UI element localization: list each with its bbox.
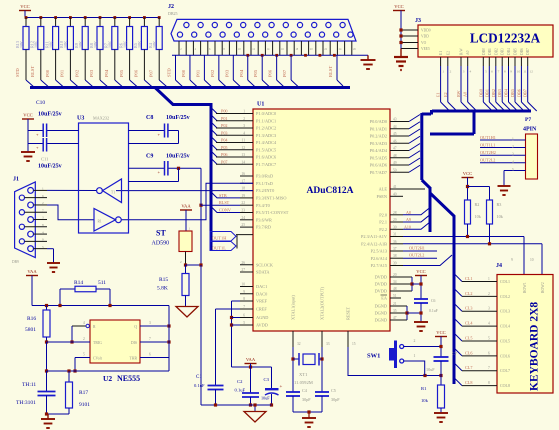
wire keyboard column COL7 (454, 363, 462, 371)
wire bus to U1 pin P1.3/ADC3 (211, 129, 217, 135)
svg-text:U3: U3 (77, 116, 84, 122)
ground triangle (R15) (176, 307, 198, 318)
svg-text:6: 6 (42, 194, 44, 198)
svg-text:VCC: VCC (436, 330, 445, 335)
svg-text:P3.1/TxD: P3.1/TxD (256, 181, 273, 186)
svg-text:36: 36 (393, 240, 397, 244)
svg-text:8: 8 (488, 381, 490, 385)
svg-text:DB5: DB5 (514, 48, 518, 55)
svg-text:CL2: CL2 (465, 291, 472, 296)
svg-text:15: 15 (352, 342, 356, 346)
wire U2 dis pin (140, 341, 169, 343)
svg-text:DVDD: DVDD (375, 282, 387, 287)
wire U2 trig pin (47, 341, 91, 343)
wire sensor line down (200, 265, 202, 405)
resistor R9 10K with net P02 (84, 16, 87, 19)
svg-text:41: 41 (393, 185, 397, 189)
svg-text:P1.4/ADC4: P1.4/ADC4 (256, 140, 277, 145)
wire bus to U1 pin P1.7/ADC7 (211, 158, 217, 164)
wire VREF (232, 300, 241, 302)
svg-text:AVDD: AVDD (256, 323, 268, 328)
svg-text:10: 10 (517, 70, 521, 74)
svg-text:10K: 10K (19, 41, 24, 48)
wire U2 thr pin (140, 357, 169, 359)
svg-text:1: 1 (442, 70, 444, 74)
svg-text:OUT1L1: OUT1L1 (480, 142, 495, 147)
svg-text:P2.5/A13: P2.5/A13 (371, 249, 387, 254)
svg-text:RW: RW (456, 90, 461, 97)
svg-text:6: 6 (149, 353, 151, 357)
svg-text:11: 11 (242, 139, 246, 143)
ground (J1) (47, 262, 60, 264)
wire SW1 pin2 to VCC (404, 346, 441, 348)
svg-text:C10: C10 (36, 100, 45, 106)
svg-text:1: 1 (512, 138, 514, 142)
ic U1 DVDD pins (390, 276, 412, 278)
svg-text:VEE5: VEE5 (421, 47, 430, 51)
svg-text:E1: E1 (436, 92, 441, 97)
svg-text:10k: 10k (475, 214, 482, 219)
svg-text:5: 5 (83, 353, 85, 357)
svg-text:CL3: CL3 (465, 306, 472, 311)
svg-text:A10: A10 (404, 224, 411, 229)
crystal XT1 11.0592M (293, 358, 299, 360)
svg-text:3: 3 (42, 216, 44, 220)
wire P2.2 to bus (403, 222, 430, 229)
svg-text:THR: THR (129, 357, 137, 361)
svg-text:DAC0: DAC0 (256, 291, 267, 296)
net label STB (211, 192, 240, 198)
svg-text:A0: A0 (466, 50, 470, 55)
svg-text:P05: P05 (119, 69, 124, 77)
svg-text:17: 17 (241, 179, 245, 183)
svg-text:28: 28 (393, 211, 397, 215)
wire XTAL2 (321, 347, 323, 392)
gate U3A inverter (103, 179, 122, 203)
svg-text:P04: P04 (239, 69, 244, 77)
svg-text:4PIN: 4PIN (523, 127, 537, 133)
wire bus to U1 pin P1.0/ADC0 (211, 108, 217, 114)
svg-text:CREF: CREF (256, 307, 267, 312)
ic U1 bottom pins XTAL1 XTAL2 RESET (292, 331, 294, 347)
svg-text:4: 4 (488, 322, 490, 326)
svg-text:J4: J4 (496, 263, 502, 269)
svg-text:P01: P01 (221, 116, 228, 121)
ground (SW1) (434, 412, 448, 414)
gate U3B inverter (94, 209, 116, 232)
wire LCD supply pins (401, 29, 418, 31)
wire analog VAA node (232, 366, 272, 368)
svg-text:18: 18 (241, 187, 245, 191)
connector J1 DB9 body (15, 182, 36, 258)
svg-text:KEYBOARD 2X8: KEYBOARD 2X8 (529, 302, 541, 391)
svg-text:9: 9 (243, 290, 245, 294)
net label OUT2H (403, 250, 437, 252)
wire J2 pin to bus net P00 (189, 55, 191, 80)
svg-text:DGND: DGND (375, 304, 387, 309)
svg-text:VDD: VDD (421, 35, 429, 39)
wire P5 pin5 to ground (504, 170, 526, 172)
svg-text:DB9: DB9 (12, 260, 19, 264)
wire U1 pin P0.3/AD3 to bus (390, 142, 409, 144)
svg-text:6: 6 (243, 314, 245, 318)
svg-text:39: 39 (393, 262, 397, 266)
svg-text:PSEN: PSEN (376, 194, 387, 199)
svg-text:P1.2/ADC2: P1.2/ADC2 (256, 126, 276, 131)
svg-text:47: 47 (393, 316, 397, 320)
svg-text:P1.6/ADC6: P1.6/ADC6 (256, 155, 277, 160)
svg-text:P07: P07 (148, 69, 153, 77)
svg-text:VCC: VCC (394, 4, 403, 9)
wire bottom rail (555) (47, 370, 170, 372)
svg-text:P01: P01 (60, 69, 65, 77)
wire bus to U1 pin P1.5/ADC5 (211, 144, 217, 150)
svg-text:12: 12 (530, 70, 534, 74)
svg-text:R16: R16 (27, 316, 36, 322)
svg-text:P7: P7 (525, 117, 531, 123)
svg-text:TH:3101: TH:3101 (16, 400, 36, 406)
svg-text:3: 3 (149, 321, 151, 325)
wire crystal ground rail (293, 411, 322, 413)
svg-text:C3: C3 (264, 377, 270, 382)
svg-text:U1: U1 (257, 102, 264, 108)
svg-text:DB1: DB1 (488, 48, 492, 55)
ground triangle (analog) (254, 405, 256, 412)
wire J1 pin5 to ground (47, 248, 54, 250)
wire XTAL1 (292, 347, 294, 392)
svg-text:OUT1H: OUT1H (212, 235, 227, 240)
svg-text:RLST: RLST (328, 66, 333, 77)
resistor R8 10K with net P03 (99, 16, 102, 19)
svg-text:10: 10 (241, 283, 245, 287)
svg-text:J1: J1 (13, 177, 19, 183)
svg-text:51: 51 (393, 294, 397, 298)
svg-text:DVDD: DVDD (375, 275, 387, 280)
ic U1 PSEN pin (390, 195, 403, 197)
svg-text:50: 50 (393, 168, 397, 172)
wire keyboard column COL1 (454, 274, 462, 282)
wire AGND AVDD (232, 317, 241, 319)
svg-text:0.1uF: 0.1uF (235, 388, 246, 393)
wire analog ground rail (201, 404, 272, 406)
module LCD12232A block (418, 25, 553, 57)
svg-text:37: 37 (393, 247, 397, 251)
svg-text:P2.3/A11-A1V: P2.3/A11-A1V (361, 234, 388, 239)
svg-text:3: 3 (463, 70, 465, 74)
svg-text:16: 16 (241, 172, 245, 176)
svg-text:20: 20 (393, 273, 397, 277)
svg-text:22: 22 (241, 201, 245, 205)
svg-text:32: 32 (297, 342, 301, 346)
wire RxD to U3 gate (122, 183, 254, 220)
svg-text:STD: STD (167, 68, 172, 77)
svg-text:P07: P07 (282, 69, 287, 77)
svg-text:24: 24 (241, 216, 245, 220)
svg-text:COL4: COL4 (500, 324, 510, 329)
bus main horizontal (30, 86, 350, 89)
wire keyboard column COL2 (454, 288, 462, 296)
wire ground rail (555) (47, 413, 70, 415)
resistor R5 10K with net P06 (143, 16, 146, 19)
wire P2.1 to bus (403, 215, 430, 222)
svg-text:VDD0: VDD0 (421, 29, 431, 33)
svg-text:DB5: DB5 (510, 89, 515, 97)
svg-text:VCC: VCC (416, 269, 425, 274)
svg-text:13: 13 (241, 153, 245, 157)
svg-text:5.8K: 5.8K (157, 286, 168, 292)
wire U2 cvolt pin (75, 357, 90, 359)
svg-text:35: 35 (393, 309, 397, 313)
svg-text:P2.7/A15: P2.7/A15 (371, 263, 387, 268)
svg-text:P06: P06 (221, 152, 228, 157)
wire J2 pin to bus net P02 (218, 55, 220, 80)
svg-text:10k: 10k (497, 214, 504, 219)
svg-text:J2: J2 (168, 4, 174, 10)
svg-text:VCC: VCC (23, 113, 32, 118)
svg-text:CL4: CL4 (465, 321, 473, 326)
capacitor C5 30pF (315, 391, 329, 393)
resistor R11 10K with net P00 (54, 16, 57, 19)
svg-text:COL2: COL2 (500, 294, 510, 299)
wire U2 reset pin (72, 325, 86, 327)
svg-text:C2: C2 (237, 379, 243, 384)
svg-text:DAC1: DAC1 (256, 284, 267, 289)
svg-text:A9: A9 (406, 217, 411, 222)
svg-text:VAA: VAA (181, 204, 191, 209)
svg-text:10uF/25v: 10uF/25v (38, 112, 62, 118)
svg-text:10uF: 10uF (426, 367, 435, 372)
svg-text:10uF/25v: 10uF/25v (166, 154, 190, 160)
svg-text:9: 9 (510, 70, 512, 74)
bus P0 vertical (420, 113, 423, 180)
svg-text:P05: P05 (253, 69, 258, 77)
wire P5 signal pins (480, 139, 526, 141)
svg-text:DB4: DB4 (504, 88, 509, 97)
svg-text:30: 30 (393, 225, 397, 229)
svg-text:34: 34 (393, 280, 397, 284)
svg-text:4: 4 (83, 321, 85, 325)
svg-text:10K: 10K (137, 41, 142, 48)
svg-text:R17: R17 (79, 390, 88, 396)
svg-text:5: 5 (42, 245, 44, 249)
svg-text:R2: R2 (475, 202, 480, 207)
svg-text:P0.1/AD1: P0.1/AD1 (370, 126, 387, 131)
svg-text:CONV: CONV (219, 208, 231, 213)
svg-text:10uF/25v: 10uF/25v (166, 115, 190, 121)
svg-text:2: 2 (488, 292, 490, 296)
svg-text:P0.0/AD0: P0.0/AD0 (370, 119, 387, 124)
svg-text:8: 8 (243, 297, 245, 301)
svg-text:5801: 5801 (25, 327, 36, 333)
svg-text:DB1: DB1 (484, 89, 489, 97)
svg-text:P05: P05 (221, 145, 228, 150)
ic U1 analog pins (240, 264, 253, 266)
bus LCD left vertical (430, 110, 433, 115)
wire rail 2 (32, 305, 169, 307)
svg-text:DB2: DB2 (494, 48, 498, 55)
svg-text:TH:11: TH:11 (22, 382, 36, 388)
svg-text:49: 49 (393, 161, 397, 165)
svg-text:COL5: COL5 (500, 338, 510, 343)
svg-text:P1.7/ADC7: P1.7/ADC7 (256, 162, 277, 167)
ic U3 MAX232 box (79, 123, 129, 233)
svg-text:10uF: 10uF (261, 396, 270, 401)
svg-text:DB6: DB6 (516, 89, 521, 97)
svg-text:C1: C1 (196, 375, 202, 380)
svg-text:P02: P02 (221, 123, 228, 128)
bus LCD horizontal (432, 110, 531, 113)
svg-text:Q: Q (134, 325, 137, 329)
svg-text:1: 1 (488, 277, 490, 281)
resistor R10 10K with net P01 (69, 16, 72, 19)
svg-text:6: 6 (488, 351, 490, 355)
wire SW1 pin1 (404, 361, 425, 376)
svg-text:ROW2: ROW2 (541, 282, 545, 293)
svg-text:23: 23 (241, 209, 245, 213)
svg-text:C9: C9 (146, 154, 153, 160)
wire J2 pin to bus net P06 (276, 55, 278, 80)
svg-text:P2.0: P2.0 (379, 212, 387, 217)
svg-text:P3.5/T1-CONVST: P3.5/T1-CONVST (256, 210, 289, 215)
svg-text:R1: R1 (421, 386, 427, 391)
svg-text:5: 5 (485, 70, 487, 74)
wire U1 pin P0.7/AD7 to bus (390, 171, 409, 173)
wire J1 to U3 gate B (47, 205, 94, 220)
wire bus to U1 pin P1.1/ADC1 (211, 115, 217, 121)
svg-text:SDATA: SDATA (256, 270, 270, 275)
svg-text:VCC: VCC (20, 4, 29, 9)
wire bus to U1 pin P1.4/ADC4 (211, 137, 217, 143)
svg-text:P1.0/ADC0: P1.0/ADC0 (256, 111, 276, 116)
svg-text:30pF: 30pF (331, 397, 340, 402)
svg-text:VO: VO (421, 41, 427, 45)
svg-text:P00: P00 (45, 69, 50, 77)
wire J2 pin to bus net P03 (232, 55, 234, 80)
svg-text:ALE: ALE (379, 187, 388, 192)
svg-text:R15: R15 (159, 277, 168, 283)
svg-text:4: 4 (470, 70, 472, 74)
svg-text:P0.7/AD7: P0.7/AD7 (370, 170, 388, 175)
svg-text:14: 14 (241, 160, 245, 164)
svg-text:P01: P01 (195, 69, 200, 77)
svg-text:10k: 10k (421, 398, 429, 403)
junction dots J2 rail (246, 54, 249, 57)
svg-text:R3: R3 (497, 202, 502, 207)
connector J2 DB25 body (171, 19, 356, 41)
svg-text:P00: P00 (181, 69, 186, 77)
resistor R12 10K with net RLST (39, 16, 42, 19)
svg-text:AD590: AD590 (152, 241, 170, 247)
svg-text:DB2: DB2 (491, 89, 496, 97)
wire U1 pin P0.1/AD1 to bus (390, 128, 409, 130)
svg-text:A8: A8 (406, 210, 411, 215)
ground (J2) (367, 55, 369, 60)
svg-text:P1.3/ADC3: P1.3/ADC3 (256, 133, 276, 138)
svg-text:33: 33 (326, 342, 330, 346)
bus LCD stub vertical (473, 111, 476, 134)
wire ST sensor to INT1 (200, 205, 202, 266)
wire P2.7 to bus (403, 255, 452, 266)
svg-text:R14: R14 (74, 280, 83, 286)
svg-text:RLST: RLST (30, 66, 35, 77)
keyboard J4 block (497, 275, 553, 394)
port OUT1L (210, 242, 236, 251)
svg-text:25: 25 (241, 223, 245, 227)
svg-text:XTAL1(input): XTAL1(input) (291, 294, 296, 320)
wire U1 pin P0.6/AD6 to bus (390, 164, 409, 166)
svg-text:2: 2 (414, 339, 416, 343)
svg-text:11.0592M: 11.0592M (294, 380, 313, 385)
svg-text:46: 46 (393, 139, 397, 143)
svg-text:P3.6/WR: P3.6/WR (256, 217, 272, 222)
svg-text:P3.0/RxD: P3.0/RxD (256, 174, 273, 179)
wire keyboard column COL3 (454, 303, 462, 311)
svg-text:P1.5/ADC5: P1.5/ADC5 (256, 147, 276, 152)
bus branch diagonal (155, 88, 211, 251)
svg-text:6: 6 (491, 70, 493, 74)
svg-text:RESET: RESET (346, 306, 351, 320)
svg-text:10K: 10K (122, 41, 127, 48)
svg-text:47: 47 (393, 147, 397, 151)
capacitor C4 30pF (286, 391, 300, 393)
svg-text:J3: J3 (415, 18, 421, 24)
wire J2 pin to bus net P07 (290, 55, 292, 80)
svg-text:45: 45 (393, 132, 397, 136)
svg-text:DB0: DB0 (478, 89, 483, 97)
svg-text:38: 38 (393, 254, 397, 258)
svg-text:DVDD: DVDD (375, 289, 387, 294)
wire ROW2 (P2.4) (403, 243, 542, 245)
svg-text:27: 27 (241, 268, 245, 272)
svg-text:4: 4 (512, 160, 514, 164)
svg-text:10K: 10K (108, 41, 113, 48)
svg-text:CL1: CL1 (465, 276, 472, 281)
svg-text:CL6: CL6 (465, 350, 472, 355)
svg-text:C8: C8 (146, 115, 153, 121)
svg-text:P03: P03 (89, 69, 94, 77)
wire RESET to SW1 (348, 347, 441, 376)
svg-text:+: + (280, 385, 283, 390)
svg-text:2: 2 (83, 337, 85, 341)
svg-text:OUT2L2: OUT2L2 (480, 158, 495, 163)
svg-text:31: 31 (393, 233, 397, 237)
wire J2 pin comb (178, 41, 180, 55)
wire CREF (216, 308, 241, 310)
svg-text:P3.4/T0: P3.4/T0 (256, 203, 270, 208)
svg-text:P0.5/AD5: P0.5/AD5 (370, 155, 387, 160)
svg-text:10K: 10K (78, 41, 83, 48)
svg-text:P03: P03 (221, 130, 228, 135)
svg-text:10uF/25v: 10uF/25v (38, 164, 62, 170)
svg-text:C11: C11 (41, 157, 48, 162)
svg-text:2: 2 (512, 145, 514, 149)
svg-text:DB3: DB3 (501, 48, 505, 55)
svg-text:9: 9 (42, 238, 44, 242)
svg-text:OUT1H1: OUT1H1 (480, 135, 496, 140)
svg-text:AGND: AGND (256, 315, 268, 320)
wire J2 pin to bus net P05 (261, 55, 263, 80)
port OUT1H (210, 232, 236, 242)
wire J2 pin to bus net STD (175, 55, 177, 80)
svg-text:P02: P02 (210, 69, 215, 77)
svg-text:SW1: SW1 (367, 353, 380, 360)
svg-text:7: 7 (42, 208, 44, 212)
svg-text:COL6: COL6 (500, 353, 510, 358)
wire U2 Q output (140, 325, 169, 327)
svg-text:P1.1/ADC1: P1.1/ADC1 (256, 118, 276, 123)
wire U2 right vertical (168, 306, 170, 372)
svg-text:43: 43 (393, 118, 397, 122)
